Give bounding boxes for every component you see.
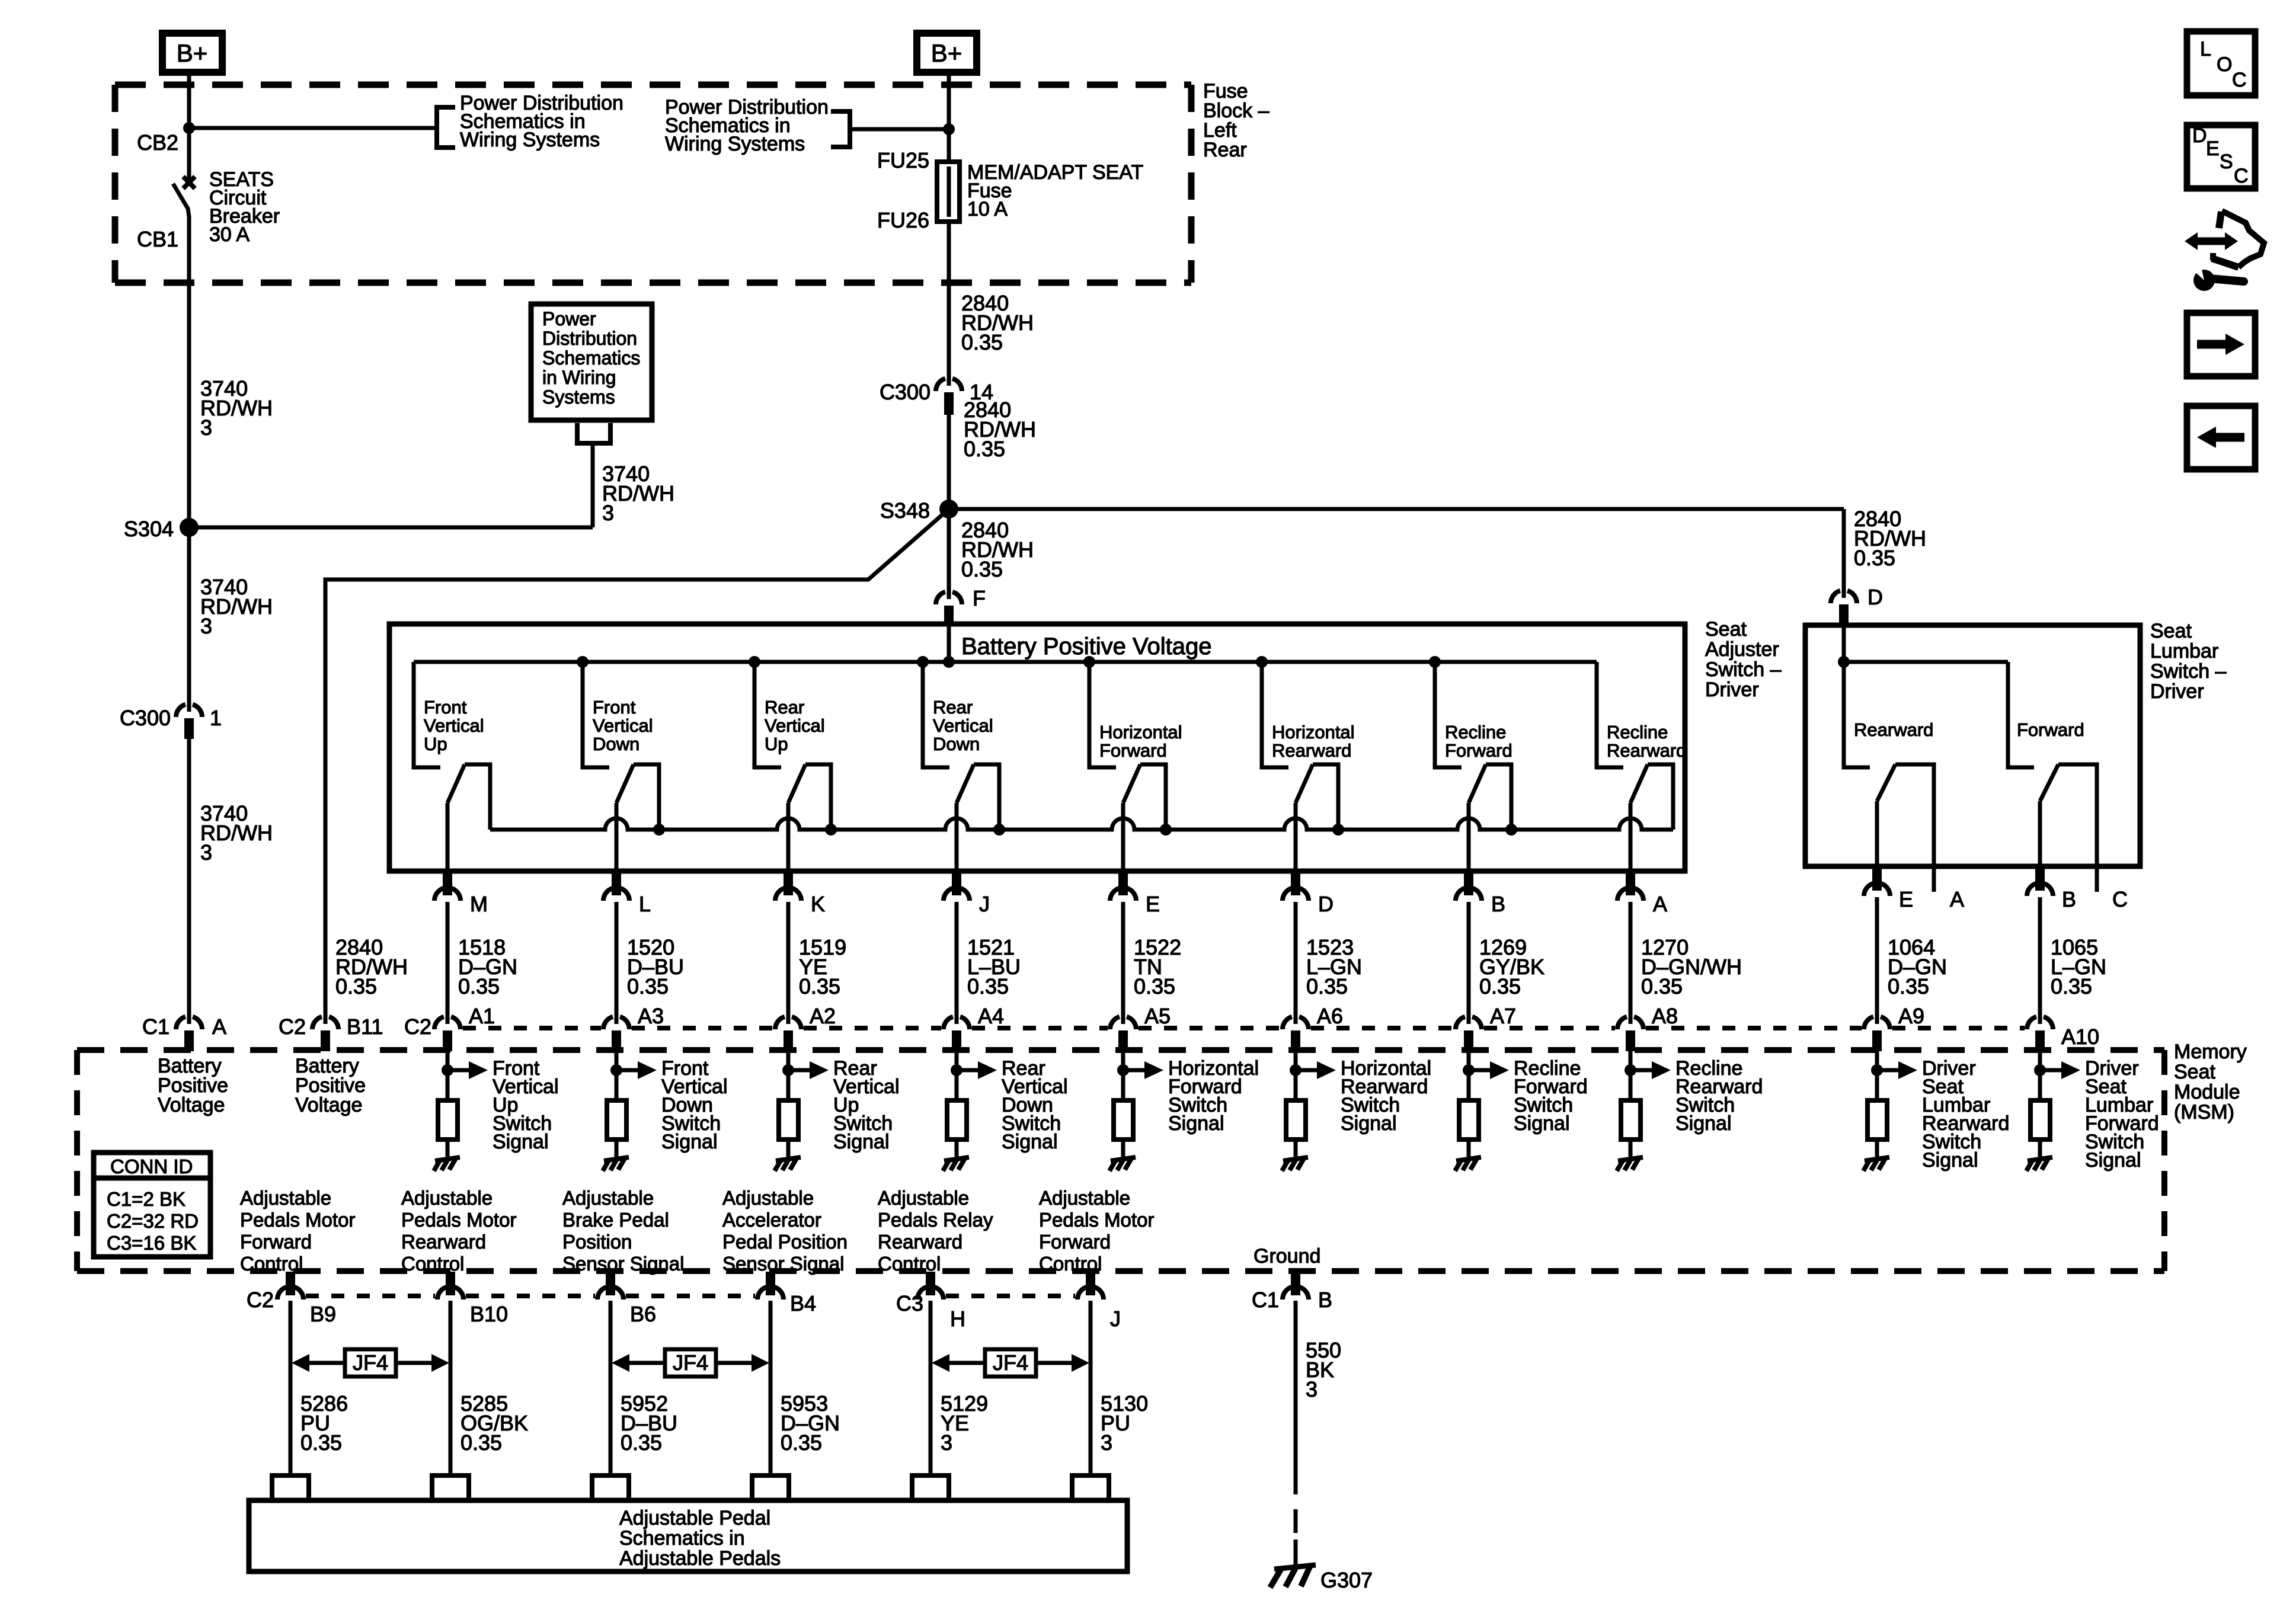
node A2 signal (782, 1064, 794, 1076)
ground (A8) (1617, 1157, 1643, 1171)
junction node (183, 122, 195, 134)
arrow A4 signal (957, 1061, 997, 1079)
svg-text:Front: Front (593, 697, 636, 718)
battery positive bus in adjuster box (414, 660, 1597, 664)
svg-text:Pedals Relay: Pedals Relay (878, 1209, 993, 1231)
svg-text:0.35: 0.35 (627, 974, 669, 998)
switch Lumbar Forward (2008, 662, 2097, 866)
label Adjustable Pedals Motor Forward Control (1039, 1187, 1154, 1275)
wire A10 to resistor network (2038, 1051, 2042, 1100)
wire resistor to ground (A9) (1875, 1140, 1879, 1157)
svg-text:Adjustable Pedals: Adjustable Pedals (619, 1547, 781, 1570)
wire label 5953 D–GN 0.35 (781, 1391, 840, 1455)
node return bus (653, 824, 665, 836)
svg-text:C1: C1 (1252, 1288, 1279, 1312)
svg-text:Switch –: Switch – (2150, 660, 2227, 683)
ground (A1) (434, 1157, 460, 1171)
svg-text:Seat: Seat (2174, 1061, 2215, 1083)
connector D (1831, 591, 1857, 627)
svg-text:Power: Power (542, 308, 596, 329)
label Adjustable Pedals Relay Rearward Control (878, 1187, 993, 1275)
wire label 5130 PU 3 (1101, 1391, 1148, 1455)
power terminal B+ (left) (162, 33, 222, 72)
junction node (943, 123, 955, 135)
svg-text:3: 3 (1101, 1430, 1112, 1455)
switch return bus with wire hops (490, 818, 1673, 830)
label Recline Forward Switch Signal (1514, 1057, 1588, 1135)
connector pin D (seat adjuster switch) (1283, 871, 1309, 901)
connector pin J (MSM bottom) (1077, 1272, 1104, 1299)
wire label 5129 YE 3 (941, 1391, 988, 1455)
svg-text:C1=2 BK: C1=2 BK (107, 1188, 186, 1210)
node A10 signal (2034, 1064, 2046, 1076)
svg-text:D: D (1868, 585, 1883, 609)
wire A6 to resistor network (1294, 1051, 1298, 1100)
svg-text:B11: B11 (347, 1014, 383, 1039)
wire label 2840 RD/WH 0.35 (1854, 507, 1926, 570)
label Adjustable Pedals Motor Forward Control (240, 1187, 355, 1275)
fuse block left rear dashed box (115, 85, 1191, 283)
switch Rear Vertical Up (754, 662, 831, 871)
svg-text:Rearward: Rearward (1854, 719, 1933, 740)
svg-text:C300: C300 (880, 380, 930, 404)
svg-text:Adjustable: Adjustable (562, 1187, 654, 1209)
wire E down to MSM (1875, 897, 1879, 1024)
node return bus (1332, 824, 1344, 836)
connector F (936, 592, 962, 626)
svg-text:0.35: 0.35 (300, 1430, 342, 1455)
wire S348 to connector B11 (325, 509, 949, 1024)
svg-text:Up: Up (765, 734, 788, 754)
connector C1 pin B (ground) (1283, 1272, 1309, 1299)
svg-text:JF4: JF4 (353, 1350, 388, 1375)
reference box Power Distribution Schematics in Wiring Systems (531, 304, 652, 420)
svg-text:C: C (2112, 887, 2128, 911)
svg-text:3: 3 (200, 415, 212, 440)
svg-text:H: H (950, 1307, 965, 1331)
terminal bracket J (1072, 1475, 1109, 1500)
svg-text:0.35: 0.35 (458, 974, 500, 998)
svg-text:Forward: Forward (2017, 719, 2084, 740)
connector pin A2 (MSM) (775, 1017, 801, 1051)
wire label 5952 D–BU 0.35 (621, 1391, 677, 1455)
wire A8 to resistor network (1629, 1051, 1633, 1100)
svg-text:A: A (1950, 887, 1964, 911)
svg-text:B: B (1318, 1288, 1332, 1312)
wire H to adjustable pedals (929, 1301, 933, 1475)
node A3 signal (610, 1064, 622, 1076)
wire label 1518 D–GN 0.35 (458, 935, 517, 998)
connector pin A6 (MSM) (1283, 1017, 1309, 1051)
label Driver Seat Lumbar Forward Switch Signal (2085, 1057, 2159, 1172)
svg-text:Adjustable Pedal: Adjustable Pedal (619, 1507, 770, 1529)
svg-text:Rearward: Rearward (401, 1231, 486, 1253)
svg-text:3: 3 (200, 840, 212, 865)
wire K down to MSM (786, 902, 791, 1024)
label Battery Positive Voltage (pin A) (158, 1055, 228, 1116)
ground (A2) (775, 1157, 801, 1171)
svg-text:E: E (1146, 892, 1160, 916)
jumper JF4 (H-J) (932, 1349, 1089, 1377)
connector C2 pin B11 (312, 1017, 338, 1051)
svg-text:D: D (1318, 892, 1334, 916)
label Front Vertical Up Switch Signal (493, 1057, 559, 1153)
svg-text:Signal: Signal (1002, 1131, 1058, 1153)
wire F into box (947, 626, 951, 662)
wire A5 to resistor network (1121, 1051, 1125, 1100)
svg-text:(MSM): (MSM) (2174, 1101, 2234, 1124)
note text Power Distribution Schematics in Wiring Systems (460, 92, 623, 151)
node A5 signal (1117, 1064, 1129, 1076)
connector pin E (seat adjuster switch) (1110, 871, 1136, 901)
svg-text:Signal: Signal (1168, 1112, 1224, 1135)
switch Horizontal Rearward (1262, 662, 1355, 871)
svg-text:A10: A10 (2061, 1025, 2099, 1049)
svg-text:Forward: Forward (1445, 740, 1512, 761)
svg-text:M: M (470, 892, 488, 916)
wire B+ to junction (187, 72, 191, 128)
resistor (A4 pull) (947, 1100, 967, 1140)
svg-text:B9: B9 (310, 1302, 336, 1326)
jumper JF4 (B6-B4) (612, 1349, 769, 1377)
svg-text:0.35: 0.35 (621, 1430, 662, 1455)
label Horizontal Rearward Switch Signal (1341, 1057, 1431, 1135)
ground (A3) (603, 1157, 629, 1171)
connector pin J (seat adjuster switch) (944, 871, 970, 901)
connector pin A7 (MSM) (1456, 1017, 1482, 1051)
arrow A6 signal (1296, 1061, 1336, 1079)
wire S348 to connector D (949, 509, 1844, 598)
label Seat Adjuster Switch - Driver (1705, 618, 1782, 701)
svg-text:Horizontal: Horizontal (1272, 722, 1355, 742)
connector pin A4 (MSM) (944, 1017, 970, 1051)
resistor (A5 pull) (1114, 1100, 1133, 1140)
svg-text:Rearward: Rearward (878, 1231, 962, 1253)
wire A3 to resistor network (615, 1051, 619, 1100)
svg-text:Horizontal: Horizontal (1099, 722, 1182, 742)
svg-text:Adjustable: Adjustable (878, 1187, 969, 1209)
svg-text:0.35: 0.35 (1306, 974, 1348, 998)
wire B10 to adjustable pedals (449, 1301, 453, 1475)
node A4 signal (951, 1064, 962, 1076)
svg-text:C: C (2234, 165, 2249, 187)
wire label 5286 PU 0.35 (300, 1391, 348, 1455)
switch Rear Vertical Down (923, 662, 999, 871)
svg-text:Position: Position (562, 1231, 632, 1253)
svg-text:C3: C3 (896, 1291, 923, 1315)
svg-text:0.35: 0.35 (1479, 974, 1521, 998)
note bracket (left) (437, 107, 455, 148)
connector pin B4 (MSM bottom) (757, 1272, 784, 1299)
wire A down to MSM (1629, 902, 1633, 1024)
connector pin B10 (MSM bottom) (437, 1272, 463, 1299)
connector pin A3 (MSM) (603, 1017, 629, 1051)
connector C300 pin 1 (176, 705, 202, 739)
wire B down to MSM (1467, 902, 1471, 1024)
svg-text:Adjustable: Adjustable (240, 1187, 331, 1209)
svg-text:Signal: Signal (661, 1131, 718, 1153)
svg-text:0.35: 0.35 (961, 557, 1003, 581)
wire S348 to connector F (947, 509, 951, 599)
svg-text:0.35: 0.35 (961, 330, 1003, 354)
wire A4 to resistor network (955, 1051, 959, 1100)
resistor (A1 pull) (438, 1100, 458, 1140)
node return bus (993, 824, 1005, 836)
svg-text:Signal: Signal (2085, 1149, 2141, 1172)
wire B+2 down to fuse (947, 72, 951, 162)
svg-text:C2: C2 (279, 1014, 306, 1039)
arrow A5 signal (1123, 1061, 1163, 1079)
svg-text:Accelerator: Accelerator (722, 1209, 821, 1231)
svg-text:A4: A4 (978, 1004, 1004, 1028)
svg-text:0.35: 0.35 (335, 974, 377, 998)
wire resistor to ground (A7) (1467, 1140, 1471, 1157)
wire A9 to resistor network (1875, 1051, 1879, 1100)
wire L down to MSM (615, 902, 619, 1024)
connector pin A9 (MSM) (1864, 1017, 1890, 1051)
seat lumbar switch box (1805, 625, 2140, 866)
svg-text:FU25: FU25 (877, 148, 929, 172)
svg-text:Vertical: Vertical (765, 715, 825, 736)
ground (A4) (943, 1157, 969, 1171)
wire fuse to C300 pin 14 (947, 222, 951, 386)
svg-text:S: S (2220, 151, 2233, 173)
label MEM/ADAPT SEAT Fuse 10 A (967, 161, 1143, 220)
svg-text:Distribution: Distribution (542, 328, 637, 349)
svg-text:A2: A2 (810, 1004, 836, 1028)
arrow A2 signal (788, 1061, 829, 1079)
connector pin B (seat adjuster switch) (1456, 871, 1482, 901)
svg-text:0.35: 0.35 (781, 1430, 822, 1455)
svg-text:CB2: CB2 (137, 130, 178, 155)
connector pin M (seat adjuster switch) (434, 871, 461, 901)
svg-text:J: J (979, 892, 990, 916)
wire label 3740 RD/WH 3 (200, 801, 273, 865)
node bus / Rear Vertical Down (917, 656, 929, 668)
arrow A1 signal (447, 1061, 488, 1079)
svg-text:L: L (639, 892, 651, 916)
svg-text:Control: Control (1039, 1253, 1102, 1275)
wire S304 to power distribution schematic reference (189, 445, 593, 527)
seat adjuster switch box (389, 624, 1685, 871)
svg-text:in Wiring: in Wiring (542, 367, 616, 388)
wire label 1523 L–GN 0.35 (1306, 935, 1362, 998)
svg-text:Wiring Systems: Wiring Systems (665, 133, 805, 155)
svg-text:Up: Up (424, 734, 447, 754)
wire label 1064 D-GN 0.35 (1888, 935, 1947, 998)
svg-text:O: O (2217, 53, 2232, 76)
wire E down to MSM (1121, 902, 1125, 1024)
node A1 signal (442, 1064, 453, 1076)
svg-text:Down: Down (933, 734, 980, 754)
svg-text:C1: C1 (142, 1014, 170, 1039)
svg-text:3: 3 (602, 501, 614, 525)
wire D down to MSM (1294, 902, 1298, 1024)
ground (A5) (1109, 1157, 1136, 1171)
svg-text:Pedals Motor: Pedals Motor (1039, 1209, 1154, 1231)
circuit breaker CB1 SEATS 30 A (173, 128, 195, 283)
connector face dashes (C2/C3 row bottom) (306, 1294, 1075, 1298)
label Battery Positive Voltage (pin B11) (295, 1055, 366, 1116)
svg-text:Recline: Recline (1607, 722, 1668, 742)
svg-text:Down: Down (593, 734, 639, 754)
svg-text:JF4: JF4 (993, 1350, 1028, 1375)
svg-text:B+: B+ (931, 39, 962, 67)
svg-text:A: A (1653, 892, 1667, 916)
svg-text:Brake Pedal: Brake Pedal (562, 1209, 669, 1231)
wire resistor to ground (A1) (446, 1140, 450, 1157)
wire B down to MSM (2038, 897, 2042, 1024)
wire J down to MSM (955, 902, 959, 1024)
svg-text:Module: Module (2174, 1081, 2240, 1103)
ground (A10) (2026, 1157, 2052, 1171)
svg-text:0.35: 0.35 (967, 974, 1009, 998)
svg-text:L: L (2200, 38, 2211, 60)
wire label 1520 D–BU 0.35 (627, 935, 684, 998)
wire breaker to S304 (187, 283, 191, 527)
switch Lumbar Rearward (1844, 662, 1934, 866)
label Memory Seat Module (MSM) (2174, 1041, 2247, 1124)
wire label 1519 YE 0.35 (799, 935, 846, 998)
svg-text:Lumbar: Lumbar (2150, 640, 2218, 662)
svg-text:B6: B6 (630, 1302, 656, 1326)
switch Recline Forward (1435, 662, 1512, 871)
svg-text:A8: A8 (1652, 1004, 1678, 1028)
svg-text:Signal: Signal (833, 1131, 890, 1153)
wire J to adjustable pedals (1089, 1301, 1093, 1475)
wire label 2840 RD/WH 0.35 (964, 398, 1036, 461)
connector pin A5 (MSM) (1110, 1017, 1136, 1051)
svg-text:Control: Control (240, 1253, 303, 1275)
svg-text:Driver: Driver (1705, 678, 1759, 701)
wire B4 to adjustable pedals (769, 1301, 773, 1475)
svg-text:3: 3 (200, 614, 212, 638)
svg-text:CONN ID: CONN ID (110, 1156, 193, 1177)
wire junction to note bracket (850, 127, 949, 132)
node return bus (825, 824, 837, 836)
terminal claw under reference box (577, 423, 610, 443)
svg-text:S304: S304 (124, 517, 174, 541)
wire resistor to ground (A6) (1294, 1140, 1298, 1157)
resistor (A9 pull) (1868, 1100, 1887, 1140)
node bus / Front Vertical Down (577, 656, 589, 668)
svg-text:3: 3 (1306, 1377, 1318, 1401)
svg-text:0.35: 0.35 (1854, 546, 1895, 570)
connector pin B9 (MSM bottom) (277, 1272, 303, 1299)
node bus / Recline Forward (1429, 656, 1441, 668)
svg-text:0.35: 0.35 (964, 437, 1005, 461)
wire resistor to ground (A2) (786, 1140, 791, 1157)
svg-text:Driver: Driver (2150, 680, 2204, 703)
splice S304 (180, 518, 199, 537)
icon arrow right (2187, 313, 2255, 376)
power terminal B+ (right) (917, 33, 977, 72)
node bus / Horizontal Rearward (1256, 656, 1268, 668)
node bus / Horizontal Forward (1083, 656, 1095, 668)
label Seat Lumbar Switch - Driver (2150, 620, 2227, 703)
svg-text:A5: A5 (1144, 1004, 1171, 1028)
svg-text:Forward: Forward (1039, 1231, 1111, 1253)
ground (A9) (1863, 1157, 1889, 1171)
wire label 1270 D–GN/WH 0.35 (1641, 935, 1742, 998)
connector pin H (MSM bottom) (917, 1272, 944, 1299)
node A7 signal (1463, 1064, 1475, 1076)
svg-text:Seat: Seat (1705, 618, 1747, 641)
connector pin B6 (MSM bottom) (597, 1272, 623, 1299)
svg-text:A6: A6 (1317, 1004, 1343, 1028)
svg-text:Vertical: Vertical (933, 715, 993, 736)
memory seat module dashed box (77, 1050, 2164, 1271)
icon schematic navigation (arrow, outline, wrench) (2185, 211, 2264, 291)
wire A7 to resistor network (1467, 1051, 1471, 1100)
splice S348 (939, 500, 958, 518)
ground G307 (1270, 1565, 1316, 1587)
node A6 signal (1290, 1064, 1302, 1076)
wire B9 to adjustable pedals (289, 1301, 293, 1475)
svg-text:Control: Control (401, 1253, 464, 1275)
svg-text:F: F (973, 586, 986, 610)
wire resistor to ground (A4) (955, 1140, 959, 1157)
note text Power Distribution Schematics in Wiring Systems (665, 96, 829, 155)
svg-text:0.35: 0.35 (2051, 974, 2092, 998)
connector pin A10 (MSM) (2027, 1017, 2053, 1051)
svg-text:Rearward: Rearward (1607, 740, 1686, 761)
wire ground 550 BK 3 (1294, 1301, 1298, 1567)
svg-text:FU26: FU26 (877, 208, 929, 232)
svg-text:B: B (2062, 887, 2076, 911)
svg-text:C300: C300 (120, 706, 171, 730)
label Rear Vertical Up Switch Signal (833, 1057, 900, 1153)
wire D into lumbar box (1842, 627, 1846, 662)
svg-text:A3: A3 (638, 1004, 664, 1028)
resistor (A10 pull) (2030, 1100, 2050, 1140)
svg-text:A7: A7 (1490, 1004, 1516, 1028)
wire label 3740 RD/WH 3 (602, 462, 674, 525)
svg-text:Forward: Forward (240, 1231, 312, 1253)
note bracket (right) (831, 111, 850, 147)
svg-text:Control: Control (878, 1253, 941, 1275)
svg-text:30 A: 30 A (209, 223, 250, 246)
svg-text:E: E (2206, 137, 2220, 160)
node bus / F wire (943, 656, 955, 668)
label Fuse Block - Left Rear (1203, 80, 1269, 161)
svg-text:C3=16 BK: C3=16 BK (107, 1232, 196, 1254)
terminal bracket B10 (432, 1475, 469, 1500)
svg-text:A9: A9 (1898, 1004, 1924, 1028)
svg-text:Voltage: Voltage (158, 1094, 225, 1116)
svg-text:Signal: Signal (1675, 1112, 1732, 1135)
svg-text:Recline: Recline (1445, 722, 1506, 742)
label SEATS Circuit Breaker 30 A (209, 168, 280, 246)
svg-text:Sensor Signal: Sensor Signal (722, 1253, 844, 1275)
svg-text:B10: B10 (470, 1302, 508, 1326)
terminal bracket B4 (752, 1475, 789, 1500)
wire A2 to resistor network (786, 1051, 791, 1100)
svg-text:3: 3 (941, 1430, 952, 1455)
svg-text:Adjustable: Adjustable (722, 1187, 814, 1209)
adjustable pedal schematics box (249, 1500, 1127, 1571)
connector pin K (seat adjuster switch) (775, 871, 801, 901)
connector pin B (lumbar) (2027, 866, 2053, 896)
resistor (A8 pull) (1621, 1100, 1641, 1140)
svg-text:Switch –: Switch – (1705, 658, 1782, 681)
svg-text:Signal: Signal (1514, 1112, 1570, 1135)
switch Horizontal Forward (1089, 662, 1182, 871)
svg-text:Voltage: Voltage (295, 1094, 362, 1116)
svg-text:S348: S348 (880, 498, 930, 523)
svg-text:0.35: 0.35 (1888, 974, 1929, 998)
resistor (A3 pull) (607, 1100, 626, 1140)
